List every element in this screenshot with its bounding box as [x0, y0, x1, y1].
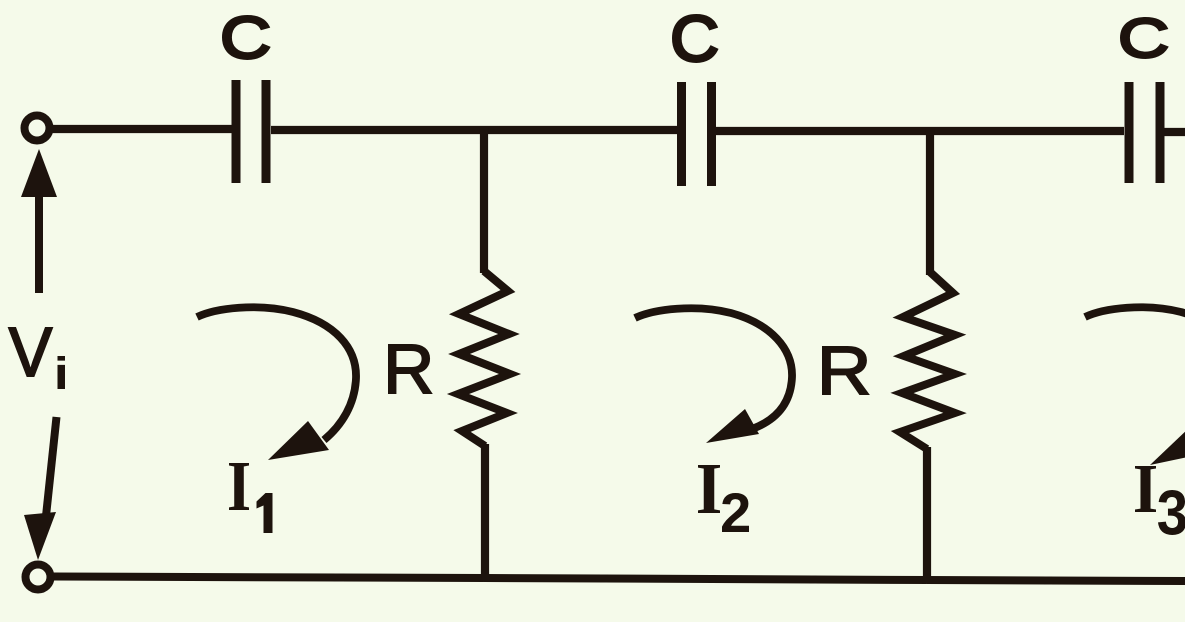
wire: bottom rail, terminal to R (first)	[53, 577, 484, 579]
wire: top lead of resistor R (first) from top rail	[480, 128, 488, 273]
wire: bottom lead of resistor R (second) to bottom rail	[923, 447, 931, 581]
wire: capacitor C (second) to capacitor C (third), through node at R (second)	[716, 127, 1124, 135]
mesh current arrow I3 (clockwise arc, cut off at right edge)	[1085, 307, 1185, 465]
wire: input terminal to capacitor C (first)	[52, 125, 232, 133]
label R (first resistor)	[389, 345, 431, 393]
wire: top lead of resistor R (second) from top rail	[926, 129, 934, 275]
label R (second resistor)	[823, 347, 868, 394]
mesh current arrow I2 (clockwise arc)	[635, 308, 792, 443]
label I2	[698, 465, 749, 532]
Vi arrow (shaft + down arrowhead to bottom terminal)	[24, 417, 57, 560]
label C (third capacitor)	[1122, 19, 1167, 58]
label C (second capacitor)	[674, 16, 717, 62]
wire: capacitor C (first) to capacitor C (second), through node at R (first)	[271, 126, 677, 134]
wire: bottom rail, R (first) to R (second)	[484, 578, 927, 580]
wire: bottom rail, R (second) to right edge	[927, 580, 1185, 581]
mesh current arrow I1 (clockwise arc)	[197, 307, 356, 460]
label C (first capacitor)	[224, 17, 269, 59]
wire: bottom lead of resistor R (first) to bottom rail	[481, 444, 489, 580]
label I3	[1135, 466, 1185, 535]
wire: capacitor C (third) to right edge	[1164, 128, 1185, 136]
label I1	[229, 463, 272, 533]
capacitor C (first)	[232, 80, 271, 183]
resistor R (first)	[458, 271, 510, 446]
capacitor C (second)	[677, 82, 716, 186]
Vi arrow (up arrowhead + shaft)	[21, 149, 57, 293]
resistor R (second)	[900, 272, 955, 449]
label Vi	[9, 328, 65, 389]
bottom terminal (bottom-left node)	[26, 565, 51, 590]
capacitor C (third, cut off at right edge)	[1125, 82, 1165, 183]
input terminal (top-left node)	[25, 116, 50, 141]
